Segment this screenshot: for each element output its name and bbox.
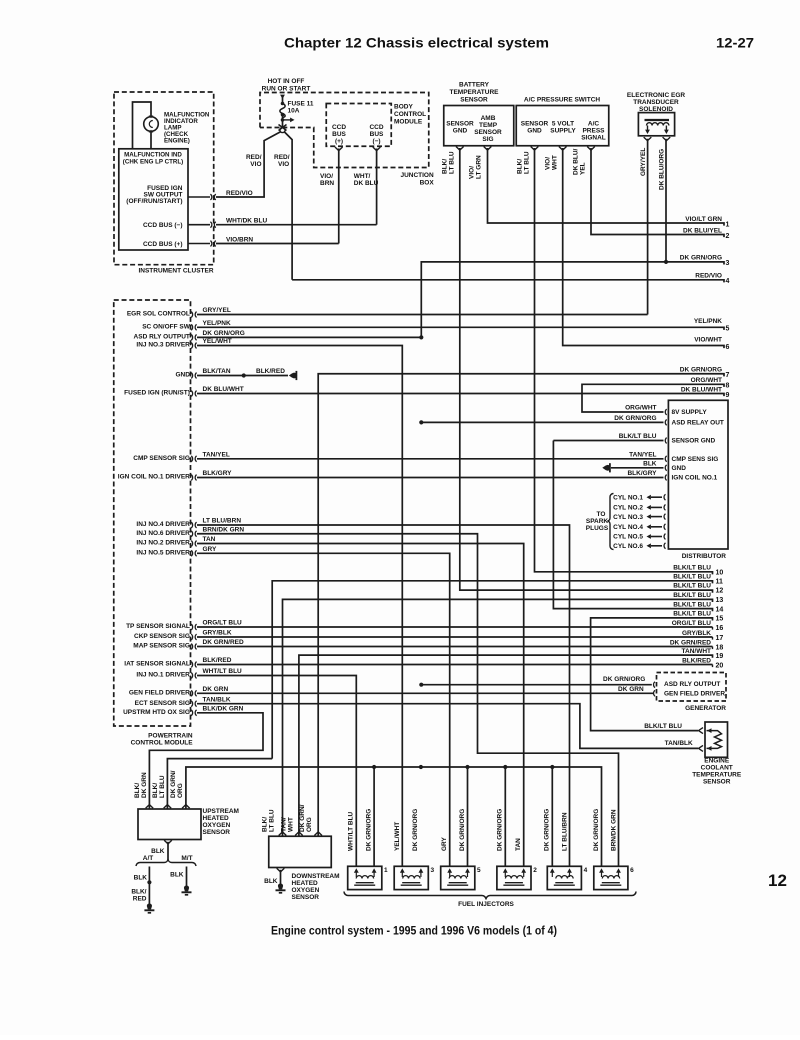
injector 5 pin DK GRN/ORG bbox=[465, 868, 470, 872]
injector 6 pin DK GRN/ORG bbox=[599, 868, 604, 872]
svg-text:WHT/DK BLU: WHT/DK BLU bbox=[226, 218, 267, 225]
svg-text:BLK/LT BLU: BLK/LT BLU bbox=[673, 611, 711, 618]
svg-text:14: 14 bbox=[716, 606, 724, 613]
generator dashed box bbox=[657, 673, 727, 702]
svg-text:INJ NO.1 DRIVER: INJ NO.1 DRIVER bbox=[136, 672, 190, 679]
svg-text:YEL: YEL bbox=[580, 162, 587, 175]
svg-text:VIO: VIO bbox=[278, 161, 289, 168]
svg-text:DK GRN/ORG: DK GRN/ORG bbox=[203, 330, 245, 337]
wire BLK a/t leg bbox=[148, 867, 150, 904]
svg-text:COOLANT: COOLANT bbox=[701, 765, 733, 772]
svg-text:DK BLU/: DK BLU/ bbox=[573, 148, 580, 175]
downstream o2 pin dk grn/org bbox=[314, 832, 322, 836]
svg-text:LT BLU/BRN: LT BLU/BRN bbox=[203, 518, 242, 525]
upstream o2 pin blk/dk grn bbox=[146, 805, 154, 809]
svg-text:TAN/WHT: TAN/WHT bbox=[682, 648, 712, 655]
svg-text:ORG/LT BLU: ORG/LT BLU bbox=[203, 620, 243, 627]
svg-text:LT BLU: LT BLU bbox=[269, 809, 276, 832]
wire DK GRN gen field driver bbox=[197, 692, 654, 694]
svg-text:12-27: 12-27 bbox=[716, 36, 754, 51]
svg-text:FUSE 11: FUSE 11 bbox=[288, 101, 314, 108]
svg-text:DK GRN/ORG: DK GRN/ORG bbox=[680, 255, 722, 262]
splice connector below fuse bbox=[279, 125, 287, 131]
svg-text:BLK/LT BLU: BLK/LT BLU bbox=[673, 574, 711, 581]
svg-text:16: 16 bbox=[716, 625, 724, 632]
svg-text:BODY: BODY bbox=[394, 104, 413, 111]
svg-text:BOX: BOX bbox=[420, 180, 435, 187]
svg-text:BUS: BUS bbox=[370, 131, 384, 138]
svg-text:ORG/LT BLU: ORG/LT BLU bbox=[672, 620, 712, 627]
svg-text:BRN/DK GRN: BRN/DK GRN bbox=[611, 809, 618, 851]
downstream heated oxygen sensor box bbox=[269, 836, 332, 867]
svg-text:GRY/BLK: GRY/BLK bbox=[682, 630, 711, 637]
wire BLK/RED numbered 20 bbox=[197, 664, 713, 666]
wire TAN inj no.2 bbox=[197, 544, 524, 867]
svg-text:DK GRN/ORG: DK GRN/ORG bbox=[366, 809, 373, 851]
svg-text:4: 4 bbox=[726, 278, 730, 285]
wire WHT/DK BLU bcm vertical bbox=[376, 149, 378, 225]
svg-text:PLUGS: PLUGS bbox=[586, 525, 609, 532]
pin ccd bus plus bbox=[188, 243, 210, 245]
svg-text:BLK/GRY: BLK/GRY bbox=[203, 470, 233, 477]
distributor pin GND bbox=[665, 465, 666, 471]
svg-text:GND: GND bbox=[527, 128, 542, 135]
svg-text:BLK/TAN: BLK/TAN bbox=[203, 368, 231, 375]
svg-text:WHT/LT BLU: WHT/LT BLU bbox=[348, 811, 355, 851]
svg-text:VIO/: VIO/ bbox=[320, 173, 333, 180]
svg-text:LT BLU: LT BLU bbox=[524, 151, 531, 174]
svg-text:VIO/WHT: VIO/WHT bbox=[694, 336, 722, 343]
svg-text:BLK/RED: BLK/RED bbox=[203, 657, 232, 664]
svg-text:DK GRN/ORG: DK GRN/ORG bbox=[603, 676, 645, 683]
wire 9 DK BLU/WHT bbox=[197, 394, 724, 397]
wire RED/VIO split right bbox=[284, 132, 292, 280]
svg-text:ELECTRONIC EGR: ELECTRONIC EGR bbox=[627, 92, 685, 99]
svg-text:DK GRN/: DK GRN/ bbox=[170, 770, 177, 798]
svg-text:TAN: TAN bbox=[515, 838, 522, 851]
svg-text:17: 17 bbox=[716, 635, 724, 642]
svg-text:RUN OR START: RUN OR START bbox=[262, 86, 311, 93]
svg-text:ORG/WHT: ORG/WHT bbox=[625, 405, 656, 412]
generator pin gen field driver bbox=[654, 690, 655, 696]
svg-text:SENSOR: SENSOR bbox=[446, 121, 474, 128]
svg-text:ORG/WHT: ORG/WHT bbox=[691, 377, 722, 384]
wire BLK/LT BLU upstream leg bbox=[167, 759, 272, 809]
egr solenoid box bbox=[638, 113, 674, 136]
svg-text:SENSOR: SENSOR bbox=[474, 129, 502, 136]
svg-text:INSTRUMENT CLUSTER: INSTRUMENT CLUSTER bbox=[138, 268, 213, 275]
ground m/t bbox=[184, 885, 189, 891]
injector 2 pin DK GRN/ORG bbox=[503, 868, 508, 872]
svg-text:(OFF/RUN/START): (OFF/RUN/START) bbox=[126, 198, 182, 205]
svg-text:SUPPLY: SUPPLY bbox=[550, 128, 576, 135]
generator pin asd rly output bbox=[654, 682, 655, 688]
svg-text:2: 2 bbox=[533, 867, 537, 874]
wire 19 TAN/WHT from downstream O2 bbox=[299, 655, 713, 836]
svg-text:DK BLU/ORG: DK BLU/ORG bbox=[659, 149, 666, 190]
svg-text:18: 18 bbox=[716, 644, 724, 651]
spark plug brace bbox=[607, 494, 613, 550]
wire BLK/LT BLU ac gnd vertical bbox=[535, 148, 713, 574]
svg-text:UPSTRM HTD OX SIG: UPSTRM HTD OX SIG bbox=[123, 709, 190, 716]
svg-text:CKP SENSOR SIG: CKP SENSOR SIG bbox=[134, 633, 190, 640]
svg-text:INJ NO.4 DRIVER: INJ NO.4 DRIVER bbox=[136, 521, 190, 528]
pin ac press signal bbox=[587, 147, 595, 151]
svg-text:(−): (−) bbox=[372, 138, 380, 145]
wire BLK downstream bbox=[280, 870, 282, 884]
ect pin TAN/BLK bbox=[699, 745, 704, 751]
svg-text:15: 15 bbox=[716, 616, 724, 623]
svg-text:20: 20 bbox=[716, 662, 724, 669]
svg-text:Engine control system - 1995 a: Engine control system - 1995 and 1996 V6… bbox=[271, 924, 557, 938]
egr solenoid coil bbox=[645, 119, 670, 121]
fuel injector 3 bbox=[394, 866, 428, 889]
junction a/t blk splice bbox=[147, 880, 151, 884]
svg-text:LT BLU: LT BLU bbox=[449, 151, 456, 174]
injector 6 pin BRN/DK GRN bbox=[616, 868, 621, 872]
svg-text:BLK: BLK bbox=[643, 460, 657, 467]
svg-text:CYL NO.3: CYL NO.3 bbox=[613, 514, 643, 521]
svg-text:MALFUNCTION IND: MALFUNCTION IND bbox=[124, 152, 182, 159]
downstream o2 pin blk/lt blu bbox=[279, 832, 287, 836]
ground distributor gnd bbox=[605, 465, 611, 471]
svg-text:DK BLU/WHT: DK BLU/WHT bbox=[203, 386, 244, 393]
svg-text:CONTROL: CONTROL bbox=[394, 111, 426, 118]
pin fused ign sw output bbox=[188, 196, 210, 198]
ground pcm gnd bbox=[291, 373, 297, 379]
svg-text:TAN/BLK: TAN/BLK bbox=[203, 696, 231, 703]
svg-text:ENGINE: ENGINE bbox=[704, 758, 730, 765]
svg-text:YEL/PNK: YEL/PNK bbox=[203, 320, 231, 327]
svg-text:TO: TO bbox=[597, 511, 606, 518]
svg-text:DK GRN/ORG: DK GRN/ORG bbox=[680, 367, 722, 374]
svg-text:BLK/RED: BLK/RED bbox=[682, 657, 711, 664]
svg-text:7: 7 bbox=[726, 372, 730, 379]
svg-text:BLK: BLK bbox=[134, 875, 148, 882]
svg-text:2: 2 bbox=[726, 233, 730, 240]
svg-text:ASD RLY OUTPUT: ASD RLY OUTPUT bbox=[664, 681, 720, 688]
svg-text:DK GRN: DK GRN bbox=[203, 686, 229, 693]
svg-text:SIG: SIG bbox=[482, 136, 493, 143]
pin battery sensor gnd bbox=[456, 147, 464, 151]
svg-text:CYL NO.4: CYL NO.4 bbox=[613, 524, 643, 531]
svg-text:TAN/BLK: TAN/BLK bbox=[665, 740, 693, 747]
svg-text:DK GRN/RED: DK GRN/RED bbox=[203, 639, 244, 646]
svg-text:SPARK: SPARK bbox=[586, 518, 609, 525]
fuse 11 10A bbox=[280, 95, 285, 99]
svg-text:TRANSDUCER: TRANSDUCER bbox=[633, 99, 679, 106]
svg-text:ASD RLY OUTPUT: ASD RLY OUTPUT bbox=[134, 334, 190, 341]
svg-text:BLK/: BLK/ bbox=[442, 159, 449, 174]
junction generator asd / dk grn/org vertical bbox=[419, 683, 423, 687]
svg-text:DK GRN/RED: DK GRN/RED bbox=[670, 639, 711, 646]
svg-text:4: 4 bbox=[584, 867, 588, 874]
wire 14 BLK/LT BLU from distributor sensor gnd bbox=[553, 441, 712, 612]
svg-text:SENSOR: SENSOR bbox=[292, 894, 320, 901]
wire DK GRN/ORG bus bbox=[186, 767, 602, 866]
junction gnd splice bbox=[242, 373, 246, 377]
svg-text:5: 5 bbox=[477, 867, 481, 874]
svg-text:BLK/RED: BLK/RED bbox=[256, 368, 285, 375]
wire GRY inj no.5 bbox=[197, 553, 450, 866]
injector 4 pin DK GRN/ORG bbox=[550, 868, 555, 872]
svg-text:RED: RED bbox=[133, 896, 147, 903]
svg-text:CYL NO.1: CYL NO.1 bbox=[613, 494, 643, 501]
svg-text:TAN/YEL: TAN/YEL bbox=[629, 451, 656, 458]
injector 5 pin GRY bbox=[447, 868, 452, 872]
wire DK BLU/ORG egr vertical bbox=[665, 139, 667, 262]
svg-text:SENSOR: SENSOR bbox=[703, 779, 731, 786]
wire RED/VIO split left bbox=[216, 132, 281, 198]
injector 2 pin TAN bbox=[521, 868, 526, 872]
svg-text:DK GRN/ORG: DK GRN/ORG bbox=[412, 809, 419, 851]
svg-text:CCD BUS (−): CCD BUS (−) bbox=[143, 222, 183, 229]
malfunction ind inner box bbox=[119, 149, 188, 250]
svg-text:CYL NO.6: CYL NO.6 bbox=[613, 543, 643, 550]
svg-text:OXYGEN: OXYGEN bbox=[292, 887, 320, 894]
svg-text:INJ NO.3 DRIVER: INJ NO.3 DRIVER bbox=[136, 342, 190, 349]
svg-text:Chapter 12 Chassis electrical: Chapter 12 Chassis electrical system bbox=[284, 36, 549, 51]
svg-text:LT BLU/BRN: LT BLU/BRN bbox=[562, 812, 569, 851]
svg-text:CMP SENSOR SIG: CMP SENSOR SIG bbox=[133, 455, 190, 462]
injector 4 pin LT BLU/BRN bbox=[567, 868, 572, 872]
wire YEL/WHT inj no.3 bbox=[197, 346, 402, 867]
fuel injectors brace bbox=[344, 892, 636, 900]
svg-text:VIO/: VIO/ bbox=[545, 157, 552, 170]
svg-text:BLK/LT BLU: BLK/LT BLU bbox=[673, 583, 711, 590]
svg-text:11: 11 bbox=[716, 579, 724, 586]
pin ccd bus minus bcm bbox=[373, 147, 381, 151]
svg-text:GND: GND bbox=[672, 465, 687, 472]
svg-text:JUNCTION: JUNCTION bbox=[400, 172, 434, 179]
injector 3 pin DK GRN/ORG bbox=[419, 868, 424, 872]
wire lamp bottom bbox=[150, 131, 152, 149]
ground a/t bbox=[147, 903, 152, 909]
pin amb temp sensor sig bbox=[484, 147, 492, 151]
svg-text:M/T: M/T bbox=[181, 855, 192, 862]
battery temperature sensor box bbox=[444, 106, 514, 146]
junction asd rly output / wire3 vertical bbox=[419, 335, 423, 339]
svg-text:INJ NO.6 DRIVER: INJ NO.6 DRIVER bbox=[136, 530, 190, 537]
ground downstream o2 bbox=[278, 883, 283, 889]
svg-text:6: 6 bbox=[630, 867, 634, 874]
svg-text:RED/: RED/ bbox=[246, 154, 262, 161]
svg-text:ENGINE): ENGINE) bbox=[164, 138, 190, 145]
svg-text:EGR SOL CONTROL: EGR SOL CONTROL bbox=[127, 311, 190, 318]
svg-text:IGN COIL NO.1 DRIVER: IGN COIL NO.1 DRIVER bbox=[118, 474, 190, 481]
wire LT BLU/BRN inj no.4 bbox=[197, 525, 570, 866]
svg-text:TEMPERATURE: TEMPERATURE bbox=[692, 772, 742, 779]
svg-text:HOT IN OFF: HOT IN OFF bbox=[268, 78, 305, 85]
svg-text:BLK/DK GRN: BLK/DK GRN bbox=[203, 705, 244, 712]
svg-text:UPSTREAM: UPSTREAM bbox=[203, 808, 239, 815]
downstream o2 bottom pin bbox=[277, 868, 285, 872]
wire VIO/WHT vertical bbox=[563, 148, 724, 348]
svg-text:BLK/LT BLU: BLK/LT BLU bbox=[673, 592, 711, 599]
svg-text:CMP SENS SIG: CMP SENS SIG bbox=[672, 456, 719, 463]
svg-text:BLK/: BLK/ bbox=[134, 783, 141, 798]
svg-text:DK GRN/ORG: DK GRN/ORG bbox=[593, 809, 600, 851]
svg-text:HEATED: HEATED bbox=[203, 815, 230, 822]
wire lamp loop bbox=[133, 102, 152, 149]
fuel injector 2 bbox=[497, 866, 531, 889]
svg-text:BLK/LT BLU: BLK/LT BLU bbox=[673, 565, 711, 572]
svg-text:DK GRN/: DK GRN/ bbox=[299, 804, 306, 832]
svg-text:DK GRN: DK GRN bbox=[618, 686, 644, 693]
svg-text:IAT SENSOR SIGNAL: IAT SENSOR SIGNAL bbox=[124, 661, 190, 668]
svg-text:TAN: TAN bbox=[203, 536, 216, 543]
svg-text:BLK: BLK bbox=[264, 878, 278, 885]
wire GRY/BLK numbered 17 bbox=[197, 636, 713, 638]
svg-text:FUSED IGN (RUN/ST): FUSED IGN (RUN/ST) bbox=[124, 390, 190, 397]
wire BLK/LT BLU battery gnd vertical bbox=[460, 148, 713, 593]
svg-text:DK GRN: DK GRN bbox=[141, 772, 148, 798]
svg-text:5: 5 bbox=[726, 326, 730, 333]
svg-text:(CHK ENG LP CTRL): (CHK ENG LP CTRL) bbox=[123, 159, 183, 166]
distributor pin CMP SENS SIG bbox=[665, 456, 666, 462]
downstream o2 pin tan/wht bbox=[295, 832, 303, 836]
svg-text:1: 1 bbox=[726, 221, 730, 228]
upstream o2 pin blk/lt blu bbox=[164, 805, 172, 809]
wire VIO/BRN bcm vertical bbox=[338, 149, 340, 244]
svg-text:WHT/LT BLU: WHT/LT BLU bbox=[203, 668, 243, 675]
svg-text:SENSOR: SENSOR bbox=[203, 829, 231, 836]
wire DK GRN/ORG asd rly output bbox=[197, 336, 421, 338]
wire DK BLU/YEL vertical bbox=[591, 148, 724, 237]
svg-text:TEMP: TEMP bbox=[479, 122, 498, 129]
svg-text:10: 10 bbox=[716, 570, 724, 577]
svg-text:CONTROL MODULE: CONTROL MODULE bbox=[131, 740, 194, 747]
svg-text:GRY: GRY bbox=[441, 836, 448, 851]
svg-text:DK BLU/WHT: DK BLU/WHT bbox=[681, 386, 722, 393]
svg-text:FUEL INJECTORS: FUEL INJECTORS bbox=[458, 901, 514, 908]
svg-text:19: 19 bbox=[716, 653, 724, 660]
svg-text:3: 3 bbox=[726, 260, 730, 267]
svg-text:TAN/: TAN/ bbox=[281, 817, 288, 832]
svg-text:MODULE: MODULE bbox=[394, 119, 423, 126]
svg-text:3: 3 bbox=[431, 867, 435, 874]
wire DK GRN/ORG inj4 drop bbox=[551, 767, 553, 866]
injector 1 pin WHT/LT BLU bbox=[354, 868, 359, 872]
fuel injector 6 bbox=[594, 866, 628, 889]
svg-text:BLK/GRY: BLK/GRY bbox=[627, 470, 657, 477]
svg-text:GND: GND bbox=[175, 372, 190, 379]
distributor pin ASD RELAY OUT bbox=[665, 420, 666, 426]
distributor pin 8V SUPPLY bbox=[665, 409, 666, 415]
svg-text:OXYGEN: OXYGEN bbox=[203, 822, 231, 829]
svg-text:GEN FIELD DRIVER: GEN FIELD DRIVER bbox=[664, 691, 725, 698]
wire 11 BLK/LT BLU from upstream O2 bbox=[272, 581, 712, 759]
svg-text:SENSOR: SENSOR bbox=[460, 97, 488, 104]
wire BLK/DK GRN upstrm htd ox sig bbox=[149, 713, 263, 809]
svg-text:SIGNAL: SIGNAL bbox=[581, 135, 606, 142]
wire WHT/DK BLU horizontal bbox=[216, 224, 377, 226]
svg-text:DK GRN/ORG: DK GRN/ORG bbox=[459, 809, 466, 851]
svg-text:GRY/BLK: GRY/BLK bbox=[203, 630, 232, 637]
engine coolant temperature sensor box bbox=[705, 722, 728, 757]
svg-text:WHT: WHT bbox=[552, 155, 559, 170]
svg-text:VIO/: VIO/ bbox=[469, 166, 476, 179]
svg-text:BRN/DK GRN: BRN/DK GRN bbox=[203, 526, 245, 533]
svg-text:GRY: GRY bbox=[203, 546, 218, 553]
svg-text:TAN/YEL: TAN/YEL bbox=[203, 451, 230, 458]
svg-text:POWERTRAIN: POWERTRAIN bbox=[148, 733, 193, 740]
svg-text:GRY/YEL: GRY/YEL bbox=[203, 307, 231, 314]
svg-text:A/C PRESSURE SWITCH: A/C PRESSURE SWITCH bbox=[524, 97, 601, 104]
svg-text:AMB: AMB bbox=[481, 115, 496, 122]
svg-text:RED/: RED/ bbox=[274, 154, 290, 161]
svg-text:ORG: ORG bbox=[177, 783, 184, 798]
svg-text:LT GRN: LT GRN bbox=[476, 155, 483, 179]
wire BLK/LT BLU distributor sensor gnd bbox=[553, 440, 663, 442]
fuse tap arrow bbox=[283, 119, 292, 121]
upstream o2 pin dk grn/org bbox=[182, 805, 190, 809]
svg-text:DISTRIBUTOR: DISTRIBUTOR bbox=[682, 553, 727, 560]
svg-text:BLK/LT BLU: BLK/LT BLU bbox=[619, 433, 657, 440]
svg-text:GRY/YEL: GRY/YEL bbox=[640, 148, 647, 176]
svg-text:WHT/: WHT/ bbox=[354, 173, 371, 180]
svg-text:SENSOR GND: SENSOR GND bbox=[672, 438, 716, 445]
svg-text:TP SENSOR SIGNAL: TP SENSOR SIGNAL bbox=[126, 623, 190, 630]
junction wire3 / egr dk blu/org bbox=[664, 260, 668, 264]
svg-text:8V SUPPLY: 8V SUPPLY bbox=[672, 409, 708, 416]
svg-text:CCD: CCD bbox=[332, 124, 346, 131]
svg-text:8: 8 bbox=[726, 383, 730, 390]
fuel injector 1 bbox=[348, 866, 382, 889]
svg-text:10A: 10A bbox=[288, 108, 300, 115]
pin ccd bus plus bcm bbox=[335, 147, 343, 151]
wire DK GRN/ORG inj1 drop bbox=[373, 767, 375, 866]
svg-text:YEL/WHT: YEL/WHT bbox=[203, 338, 232, 345]
svg-text:BLK/LT BLU: BLK/LT BLU bbox=[644, 723, 682, 730]
svg-text:DK GRN/ORG: DK GRN/ORG bbox=[614, 415, 656, 422]
instrument cluster dashed box bbox=[114, 92, 214, 265]
distributor pin SENSOR GND bbox=[665, 438, 666, 444]
svg-text:VIO/LT GRN: VIO/LT GRN bbox=[685, 216, 722, 223]
svg-text:INJ NO.2 DRIVER: INJ NO.2 DRIVER bbox=[136, 540, 190, 547]
svg-text:HEATED: HEATED bbox=[292, 880, 319, 887]
pin egr gry/yel bbox=[644, 137, 652, 141]
svg-text:ORG: ORG bbox=[306, 817, 313, 832]
wire 8 ORG/WHT bbox=[582, 384, 724, 412]
svg-text:DK BLU: DK BLU bbox=[354, 180, 379, 187]
upstream o2 bottom pin bbox=[164, 840, 172, 844]
wire 15 BLK/LT BLU from ect sensor bbox=[591, 618, 713, 731]
svg-text:(+): (+) bbox=[335, 138, 343, 145]
wire 7 DK GRN/ORG from downstream O2 bbox=[318, 374, 724, 836]
svg-text:RED/VIO: RED/VIO bbox=[695, 273, 722, 280]
junction box dashed outline bbox=[260, 93, 429, 168]
pin ac 5 volt supply bbox=[559, 147, 567, 151]
wire BLK m/t leg bbox=[186, 867, 188, 886]
wire WHT/LT BLU inj no.1 bbox=[197, 676, 356, 867]
svg-text:BLK/: BLK/ bbox=[152, 783, 159, 798]
svg-text:5 VOLT: 5 VOLT bbox=[552, 121, 574, 128]
wire DK GRN/ORG generator asd bbox=[421, 684, 652, 686]
svg-text:CYL NO.2: CYL NO.2 bbox=[613, 505, 643, 512]
wire GRY/YEL egr vertical bbox=[647, 139, 649, 315]
svg-text:SENSOR: SENSOR bbox=[521, 121, 549, 128]
wire 13 BLK/LT BLU from downstream O2 bbox=[283, 599, 713, 836]
svg-text:VIO/BRN: VIO/BRN bbox=[226, 236, 253, 243]
svg-text:YEL/PNK: YEL/PNK bbox=[694, 318, 722, 325]
wire VIO/LT GRN vertical bbox=[488, 148, 725, 226]
wire BLK/TAN gnd bbox=[197, 375, 288, 377]
svg-text:DOWNSTREAM: DOWNSTREAM bbox=[292, 873, 340, 880]
wire VIO/BRN horizontal bbox=[216, 243, 339, 245]
svg-text:A/T: A/T bbox=[143, 855, 154, 862]
svg-text:12: 12 bbox=[716, 588, 724, 595]
